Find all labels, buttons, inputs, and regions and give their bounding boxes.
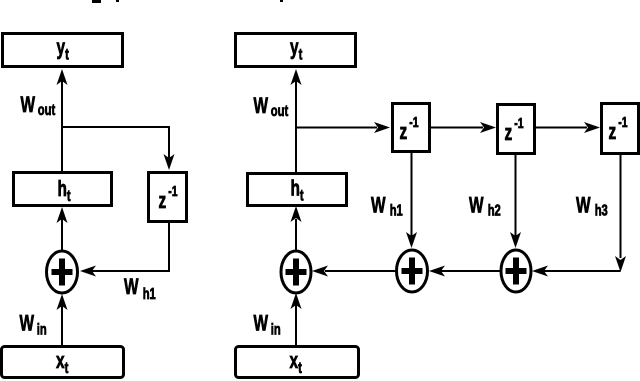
wire delay2 to delay3 (536, 122, 600, 133)
adder #2 (397, 250, 428, 292)
adder #3 (501, 250, 531, 292)
svg-text:z-1: z-1 (609, 113, 628, 145)
adder #1 (281, 251, 311, 293)
svg-text:Win: Win (20, 312, 47, 338)
delay z-1 #3 (602, 104, 639, 154)
svg-text:z-1: z-1 (505, 114, 524, 146)
wire xt to adder1 (right) (291, 293, 302, 345)
wire xt to adder (left) (57, 294, 68, 345)
wire branch to delay (left) (63, 127, 175, 170)
delay z-1 #1 (393, 104, 430, 152)
wire Wout (left): ht to yt (57, 69, 68, 171)
wire adder3 to adder2 (429, 266, 501, 277)
box xt (right) (236, 347, 359, 378)
wire adder1 to ht (right) (291, 206, 302, 251)
svg-text:Wh3: Wh3 (576, 194, 608, 219)
box ht (right) (248, 174, 347, 206)
box xt (left) (2, 347, 124, 378)
box yt (left) (3, 34, 123, 67)
svg-text:Win: Win (254, 312, 281, 338)
svg-text:z-1: z-1 (400, 113, 419, 145)
box yt (right) (236, 34, 356, 67)
svg-text:Wh1: Wh1 (371, 194, 403, 219)
svg-text:yt: yt (57, 36, 70, 63)
wire delay1 to delay2 (431, 122, 496, 133)
wire adder to ht (left) (57, 207, 68, 251)
caption fragment top edge (92, 0, 283, 3)
svg-text:yt: yt (290, 36, 303, 63)
svg-text:ht: ht (58, 177, 71, 204)
svg-text:Wh1: Wh1 (124, 275, 156, 302)
svg-text:Wout: Wout (254, 94, 289, 119)
delay z-1 (left) (149, 173, 187, 222)
wire delay3 corner to adder3 (532, 266, 621, 277)
svg-text:xt: xt (56, 349, 69, 376)
wire ht branch to delay1 (297, 122, 390, 133)
svg-text:Wout: Wout (21, 93, 56, 118)
delay z-1 #2 (498, 105, 535, 154)
wire delay2 to adder3 (510, 154, 521, 248)
svg-text:ht: ht (291, 177, 304, 204)
wire Wout (right): ht to yt (291, 69, 302, 172)
adder (left) (47, 251, 78, 293)
wire adder2 to adder1 (312, 266, 396, 277)
svg-text:Wh2: Wh2 (469, 194, 501, 219)
wire delay3 down (615, 153, 626, 272)
wire delay1 to adder2 (406, 153, 417, 248)
svg-text:z-1: z-1 (159, 182, 178, 214)
svg-text:xt: xt (290, 349, 303, 376)
box ht (left) (14, 173, 112, 206)
wire delay to adder (left) (80, 223, 169, 277)
